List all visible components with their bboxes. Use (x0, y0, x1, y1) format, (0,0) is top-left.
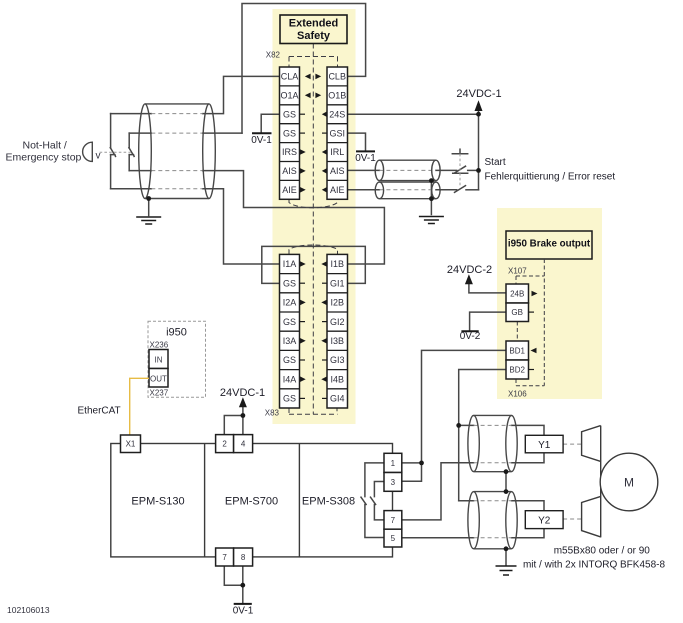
svg-text:Emergency stop: Emergency stop (6, 151, 82, 163)
svg-text:2: 2 (222, 440, 227, 449)
svg-text:BD2: BD2 (509, 366, 525, 375)
svg-text:BD1: BD1 (509, 347, 525, 356)
svg-text:0V-1: 0V-1 (355, 153, 376, 164)
svg-text:IRL: IRL (330, 147, 344, 157)
svg-text:24VDC-1: 24VDC-1 (456, 88, 501, 100)
svg-text:7: 7 (222, 553, 227, 562)
svg-text:I1A: I1A (283, 259, 297, 269)
svg-text:GS: GS (283, 128, 296, 138)
svg-text:EPM-S308: EPM-S308 (302, 496, 355, 508)
svg-text:mit / with 2x INTORQ BFK458-8: mit / with 2x INTORQ BFK458-8 (523, 560, 666, 571)
svg-text:EtherCAT: EtherCAT (78, 406, 121, 417)
svg-text:I2B: I2B (330, 298, 344, 308)
svg-text:EPM-S130: EPM-S130 (131, 496, 184, 508)
svg-text:AIE: AIE (330, 185, 345, 195)
svg-text:1: 1 (391, 459, 396, 468)
svg-text:i950 Brake output: i950 Brake output (508, 239, 591, 250)
svg-text:Not-Halt /: Not-Halt / (23, 139, 67, 151)
svg-text:Safety: Safety (297, 30, 331, 42)
svg-text:m55Bx80 oder / or 90: m55Bx80 oder / or 90 (554, 546, 651, 557)
svg-text:Y2: Y2 (538, 515, 551, 526)
svg-text:O1B: O1B (328, 91, 346, 101)
svg-text:X83: X83 (265, 409, 280, 418)
svg-text:I1B: I1B (330, 259, 344, 269)
svg-text:AIE: AIE (282, 185, 297, 195)
svg-text:0V-1: 0V-1 (251, 135, 272, 146)
svg-text:M: M (624, 476, 634, 490)
svg-text:X237: X237 (150, 389, 169, 398)
svg-text:GSI: GSI (329, 128, 345, 138)
svg-text:GS: GS (283, 355, 296, 365)
svg-text:Extended: Extended (289, 18, 339, 30)
svg-text:5: 5 (391, 534, 396, 543)
svg-text:GS: GS (283, 317, 296, 327)
svg-text:24VDC-1: 24VDC-1 (220, 387, 265, 399)
svg-text:4: 4 (241, 440, 246, 449)
svg-text:IN: IN (155, 355, 163, 364)
svg-text:8: 8 (241, 553, 246, 562)
svg-text:I4A: I4A (283, 374, 297, 384)
svg-text:I3B: I3B (330, 336, 344, 346)
svg-text:GS: GS (283, 109, 296, 119)
svg-text:AIS: AIS (282, 166, 297, 176)
svg-text:X82: X82 (266, 51, 281, 60)
svg-text:GI2: GI2 (330, 317, 345, 327)
svg-text:102106013: 102106013 (7, 605, 50, 615)
svg-text:X1: X1 (126, 440, 136, 449)
svg-text:24B: 24B (510, 290, 524, 299)
svg-text:EPM-S700: EPM-S700 (225, 496, 278, 508)
svg-text:GI3: GI3 (330, 355, 345, 365)
svg-text:I2A: I2A (283, 298, 297, 308)
svg-text:0V-2: 0V-2 (460, 331, 481, 342)
svg-text:0V-1: 0V-1 (233, 606, 254, 617)
svg-text:CLB: CLB (328, 72, 346, 82)
svg-text:I3A: I3A (283, 336, 297, 346)
svg-text:Start: Start (485, 157, 506, 168)
svg-text:CLA: CLA (281, 72, 299, 82)
svg-text:24S: 24S (329, 109, 345, 119)
svg-text:24VDC-2: 24VDC-2 (447, 264, 492, 276)
svg-text:GS: GS (283, 394, 296, 404)
svg-text:Fehlerquittierung / Error rese: Fehlerquittierung / Error reset (485, 172, 616, 183)
svg-text:7: 7 (391, 516, 396, 525)
svg-text:OUT: OUT (150, 374, 167, 383)
svg-text:X236: X236 (150, 341, 169, 350)
svg-text:3: 3 (391, 478, 396, 487)
svg-text:GS: GS (283, 278, 296, 288)
svg-text:IRS: IRS (282, 147, 297, 157)
svg-text:i950: i950 (166, 327, 187, 339)
svg-text:v: v (96, 151, 101, 162)
svg-text:X106: X106 (508, 390, 527, 399)
svg-text:AIS: AIS (330, 166, 345, 176)
svg-text:X107: X107 (508, 267, 527, 276)
svg-text:GI4: GI4 (330, 394, 345, 404)
svg-text:O1A: O1A (280, 91, 298, 101)
svg-text:I4B: I4B (330, 374, 344, 384)
svg-text:GI1: GI1 (330, 278, 345, 288)
svg-text:GB: GB (511, 308, 523, 317)
svg-text:Y1: Y1 (538, 440, 551, 451)
